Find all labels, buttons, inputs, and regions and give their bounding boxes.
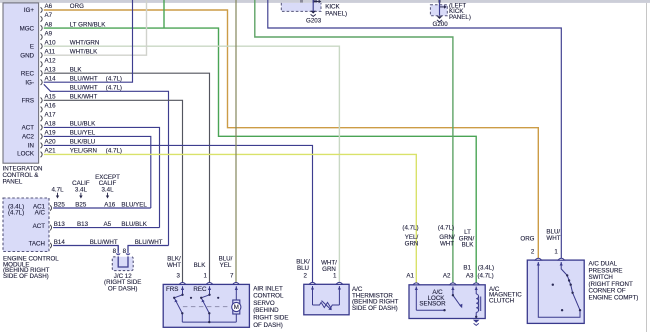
- svg-text:YEL/GRN: YEL/GRN: [70, 148, 97, 155]
- lock sensor internals: [416, 287, 461, 311]
- svg-text:A1: A1: [406, 273, 414, 280]
- wire A14 BLU/WHT: [44, 0, 133, 82]
- wire A13 BLK: [44, 73, 210, 285]
- svg-text:MGC: MGC: [20, 25, 35, 32]
- svg-text:3.4L: 3.4L: [75, 186, 88, 193]
- ECM pin name labels: [8, 203, 46, 247]
- ground box G200: [430, 5, 447, 22]
- svg-text:A17: A17: [45, 112, 57, 119]
- ECM variant arrows: [51, 174, 120, 193]
- wire GRN/WHT from top to lock sensor A2: [255, 0, 453, 285]
- wire A20 BLK/BLU: [44, 145, 313, 284]
- a/c thermistor box: [304, 284, 349, 315]
- svg-text:A14: A14: [45, 75, 57, 82]
- svg-text:BLU/BLK: BLU/BLK: [70, 121, 96, 128]
- svg-text:3.4L: 3.4L: [101, 186, 114, 193]
- svg-text:CLUTCH: CLUTCH: [489, 298, 514, 305]
- svg-text:A3: A3: [466, 273, 474, 280]
- pressure switch connector arcs: [535, 258, 565, 260]
- svg-text:WHT/BLK: WHT/BLK: [70, 48, 98, 55]
- servo FRS switch: [174, 286, 182, 322]
- svg-text:1: 1: [333, 273, 337, 280]
- pin id labels A6-A21: [45, 3, 57, 155]
- svg-text:BLK/BLU: BLK/BLU: [70, 139, 95, 146]
- wire A8 LT GRN/BLK: [44, 28, 476, 285]
- svg-text:A5: A5: [104, 221, 112, 228]
- wire name labels (panel side): [70, 3, 122, 155]
- svg-text:A2: A2: [443, 273, 451, 280]
- svg-text:8: 8: [113, 248, 117, 255]
- svg-text:1: 1: [554, 249, 558, 256]
- J/C 12 caption: [104, 273, 141, 293]
- svg-text:IG+: IG+: [24, 7, 35, 14]
- svg-text:(BEHIND: (BEHIND: [253, 307, 279, 314]
- clutch coil: [476, 287, 481, 319]
- svg-text:BLU/YEL: BLU/YEL: [70, 130, 96, 137]
- svg-text:A16: A16: [45, 103, 57, 110]
- svg-text:A20: A20: [45, 139, 57, 146]
- servo REC switch: [201, 286, 209, 322]
- svg-text:A19: A19: [45, 130, 57, 137]
- svg-text:WHT: WHT: [440, 240, 454, 247]
- svg-text:B13: B13: [77, 221, 89, 228]
- wire A14 branch BLU/WHT to ECM/JC: [44, 84, 169, 245]
- svg-text:A10: A10: [45, 39, 57, 46]
- svg-text:ORG: ORG: [520, 235, 534, 242]
- svg-text:REC: REC: [193, 286, 207, 293]
- servo pin arrows: [175, 286, 238, 302]
- wire A10 WHT/GRN: [44, 46, 340, 284]
- svg-text:BLK: BLK: [194, 262, 207, 269]
- wire G200 lead: [439, 0, 441, 16]
- svg-text:ENGINE COMPT): ENGINE COMPT): [589, 295, 639, 302]
- svg-text:A7: A7: [45, 12, 53, 19]
- pressure switch internals: [538, 262, 580, 317]
- ECM connector arcs: [50, 205, 52, 248]
- servo mechanical dashed link: [183, 306, 228, 308]
- svg-text:BLU/WHT: BLU/WHT: [90, 239, 118, 246]
- svg-text:A18: A18: [45, 121, 57, 128]
- wire BLU/WHT bus from top to pressure switch pin 1: [268, 0, 562, 259]
- servo wire labels: [167, 256, 233, 269]
- svg-text:PANEL: PANEL: [3, 179, 23, 186]
- svg-text:FRS: FRS: [166, 286, 178, 293]
- svg-text:8: 8: [123, 248, 127, 255]
- svg-text:GND: GND: [20, 52, 34, 59]
- svg-text:E: E: [30, 43, 34, 50]
- svg-text:SERVO: SERVO: [253, 300, 275, 307]
- svg-text:B13: B13: [54, 221, 66, 228]
- svg-text:BLK: BLK: [462, 242, 475, 249]
- svg-text:ACT: ACT: [33, 223, 46, 230]
- svg-text:SIDE OF DASH): SIDE OF DASH): [3, 273, 49, 280]
- servo bottom bus wire: [182, 286, 236, 322]
- svg-text:(4.7L): (4.7L): [106, 148, 122, 155]
- wire BLU/YEL to servo pin 7 from top: [235, 0, 237, 285]
- servo caption: [253, 285, 288, 329]
- svg-text:A11: A11: [45, 48, 56, 55]
- svg-text:M: M: [234, 304, 239, 311]
- svg-text:A8: A8: [45, 21, 53, 28]
- svg-text:OF DASH): OF DASH): [253, 322, 283, 329]
- clutch caption: [489, 286, 522, 305]
- svg-text:G200: G200: [433, 21, 449, 28]
- ground box G203: [281, 0, 321, 16]
- wire A19 BLU/YEL: [44, 136, 151, 208]
- pressure switch wire labels: [520, 228, 560, 255]
- svg-text:A6: A6: [45, 3, 53, 10]
- pressure switch caption: [589, 261, 639, 302]
- svg-text:(4.7L): (4.7L): [106, 85, 122, 92]
- ECM wire labels: [90, 201, 163, 246]
- svg-text:BLU/WHT: BLU/WHT: [135, 239, 163, 246]
- svg-text:CONTROL: CONTROL: [253, 293, 284, 300]
- servo connector arcs: [179, 283, 239, 285]
- clutch ground symbol: [473, 320, 480, 323]
- svg-text:B25: B25: [75, 201, 87, 208]
- wire A18 BLU/BLK: [44, 127, 160, 227]
- svg-text:IN: IN: [28, 143, 34, 150]
- wire A8 branch up: [163, 0, 165, 28]
- svg-text:BLU/WHT: BLU/WHT: [70, 85, 98, 92]
- wire ECM B13 BLU/BLK: [53, 227, 159, 229]
- lock/clutch connector arcs: [413, 283, 480, 285]
- panel pin name labels: [17, 7, 35, 157]
- svg-text:(4.7L): (4.7L): [478, 273, 494, 280]
- svg-text:OF DASH): OF DASH): [108, 286, 138, 293]
- svg-text:B25: B25: [54, 201, 66, 208]
- thermistor caption: [352, 286, 399, 312]
- svg-text:SENSOR: SENSOR: [419, 301, 446, 308]
- svg-text:WHT: WHT: [167, 262, 181, 269]
- svg-text:RIGHT SIDE: RIGHT SIDE: [253, 315, 288, 322]
- right window edge line: [646, 3, 648, 332]
- thermistor wire labels: [296, 258, 337, 272]
- a/c dual pressure switch box: [527, 260, 584, 323]
- thermistor connector arcs: [309, 282, 343, 284]
- wire ECM B14 BLU/WHT to J/C 12: [53, 246, 118, 251]
- panel connector arcs A6-A21: [41, 7, 43, 157]
- svg-text:REC: REC: [21, 70, 35, 77]
- svg-text:B14: B14: [54, 239, 66, 246]
- svg-text:A16: A16: [104, 201, 116, 208]
- svg-text:A21: A21: [45, 148, 57, 155]
- ECM pin id labels: [54, 201, 116, 246]
- svg-text:A15: A15: [45, 94, 57, 101]
- svg-text:3: 3: [177, 273, 181, 280]
- svg-text:(4.7L): (4.7L): [8, 209, 24, 216]
- wire A6 ORG: [44, 10, 539, 259]
- servo motor M: [232, 300, 241, 314]
- svg-text:LT GRN/BLK: LT GRN/BLK: [70, 21, 106, 28]
- servo pin numbers: [177, 273, 235, 280]
- svg-text:1: 1: [204, 273, 208, 280]
- ECM box: [3, 198, 49, 252]
- svg-text:AIR INLET: AIR INLET: [253, 285, 283, 292]
- ECM caption: [3, 256, 59, 280]
- a/c lock sensor / magnetic clutch box: [409, 285, 485, 319]
- wire A15 BLK/WHT: [44, 100, 183, 285]
- svg-text:PANEL): PANEL): [449, 14, 471, 21]
- air inlet control servo box: [163, 284, 249, 327]
- svg-text:2: 2: [531, 249, 535, 256]
- svg-text:7: 7: [230, 273, 234, 280]
- svg-text:(4.7L): (4.7L): [106, 75, 122, 82]
- svg-text:G203: G203: [306, 17, 322, 24]
- lock sensor caption: [419, 289, 446, 307]
- panel caption: [3, 166, 43, 186]
- svg-text:BLU: BLU: [297, 265, 309, 272]
- svg-text:FRS: FRS: [22, 98, 34, 105]
- svg-text:AC2: AC2: [22, 134, 35, 141]
- svg-text:BLU/WHT: BLU/WHT: [70, 75, 98, 82]
- svg-text:(4.7L): (4.7L): [402, 225, 418, 232]
- wire G203 lead: [312, 0, 314, 11]
- svg-text:2: 2: [304, 273, 308, 280]
- wire A11 WHT/BLK: [44, 0, 147, 55]
- lock sensor wire labels: [402, 225, 474, 249]
- svg-text:LOCK: LOCK: [17, 150, 35, 157]
- svg-text:BLK/WHT: BLK/WHT: [70, 94, 98, 101]
- clutch pin id labels: [406, 264, 494, 279]
- svg-text:WHT/GRN: WHT/GRN: [70, 39, 100, 46]
- svg-text:IG-: IG-: [25, 79, 34, 86]
- svg-text:ORG: ORG: [70, 3, 84, 10]
- svg-text:A13: A13: [45, 66, 57, 73]
- servo contact dots: [173, 294, 219, 324]
- svg-text:GRN: GRN: [405, 240, 419, 247]
- svg-text:BLU/YEL: BLU/YEL: [121, 201, 147, 208]
- wire J/C 12 right pin BLU/WHT: [128, 246, 169, 251]
- svg-text:BLU/BLK: BLU/BLK: [121, 221, 147, 228]
- svg-text:(4.7L): (4.7L): [438, 225, 454, 232]
- svg-text:ACT: ACT: [22, 125, 35, 132]
- svg-text:4.7L: 4.7L: [51, 186, 64, 193]
- wire ECM B25 BLU/YEL: [53, 207, 151, 209]
- svg-text:A12: A12: [45, 57, 57, 64]
- svg-text:(3.4L): (3.4L): [478, 264, 494, 271]
- svg-text:B1: B1: [463, 264, 471, 271]
- wire A21 YEL/GRN: [44, 154, 417, 284]
- svg-text:TACH: TACH: [29, 241, 45, 248]
- svg-text:BLK: BLK: [70, 66, 83, 73]
- top toolbar strip: [0, 0, 650, 3]
- integration control panel box: [3, 3, 39, 163]
- thermistor internals: [313, 286, 340, 309]
- svg-text:PANEL): PANEL): [325, 10, 347, 17]
- junction connector J/C 12: [112, 246, 133, 271]
- svg-text:A/C: A/C: [35, 209, 46, 216]
- svg-text:WHT: WHT: [546, 235, 560, 242]
- svg-text:YEL: YEL: [220, 262, 232, 269]
- svg-text:A9: A9: [45, 30, 53, 37]
- svg-text:SIDE OF DASH): SIDE OF DASH): [352, 305, 398, 312]
